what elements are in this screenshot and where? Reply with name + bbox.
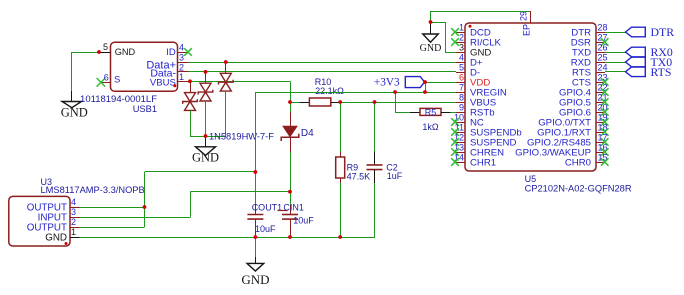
svg-text:3: 3: [179, 53, 184, 63]
svg-text:2: 2: [459, 33, 464, 43]
svg-text:CHR0: CHR0: [565, 158, 591, 169]
svg-text:GND: GND: [45, 233, 67, 244]
svg-text:GND: GND: [192, 150, 219, 164]
svg-text:25: 25: [598, 53, 608, 63]
svg-text:ID: ID: [166, 47, 176, 58]
svg-text:4: 4: [179, 43, 184, 53]
svg-text:1: 1: [179, 72, 184, 82]
svg-text:3: 3: [459, 43, 464, 53]
svg-text:5: 5: [459, 63, 464, 73]
svg-text:CHR1: CHR1: [470, 158, 496, 169]
svg-text:4: 4: [71, 197, 76, 207]
svg-text:GND: GND: [420, 43, 442, 54]
svg-text:5: 5: [103, 42, 108, 52]
svg-text:47.5K: 47.5K: [347, 172, 371, 182]
svg-text:4: 4: [459, 53, 464, 63]
svg-text:1: 1: [459, 23, 464, 33]
svg-text:LMS8117AMP-3.3/NOPB: LMS8117AMP-3.3/NOPB: [41, 185, 145, 195]
svg-text:26: 26: [598, 43, 608, 53]
svg-text:GND: GND: [115, 47, 136, 57]
svg-text:1N5819HW-7-F: 1N5819HW-7-F: [209, 132, 274, 142]
svg-text:8: 8: [459, 93, 464, 103]
svg-text:GND: GND: [61, 106, 88, 120]
svg-text:USB1: USB1: [133, 104, 157, 114]
svg-text:CIN1: CIN1: [283, 203, 304, 213]
svg-text:D4: D4: [301, 128, 314, 139]
svg-text:VBUS: VBUS: [150, 77, 176, 88]
svg-text:3: 3: [71, 207, 76, 217]
svg-text:CP2102N-A02-GQFN28R: CP2102N-A02-GQFN28R: [525, 184, 632, 194]
svg-text:6: 6: [104, 72, 109, 82]
svg-text:GND: GND: [241, 272, 269, 287]
svg-text:2: 2: [71, 217, 76, 227]
svg-text:S: S: [114, 74, 120, 85]
svg-text:29: 29: [519, 11, 529, 21]
svg-text:10uF: 10uF: [255, 224, 276, 234]
svg-text:6: 6: [459, 73, 464, 83]
svg-text:7: 7: [459, 83, 464, 93]
svg-text:9: 9: [459, 103, 464, 113]
svg-text:DTR: DTR: [651, 25, 675, 39]
svg-text:1: 1: [71, 227, 76, 237]
svg-text:R5: R5: [425, 108, 437, 118]
svg-text:28: 28: [598, 23, 608, 33]
svg-text:+3V3: +3V3: [374, 76, 400, 88]
svg-text:1kΩ: 1kΩ: [422, 122, 439, 132]
svg-text:1uF: 1uF: [387, 171, 403, 181]
svg-text:22.1kΩ: 22.1kΩ: [315, 86, 344, 96]
svg-text:U5: U5: [525, 174, 537, 184]
svg-text:10uF: 10uF: [293, 216, 314, 226]
svg-text:RTS: RTS: [651, 65, 672, 79]
svg-text:EP: EP: [522, 24, 532, 36]
